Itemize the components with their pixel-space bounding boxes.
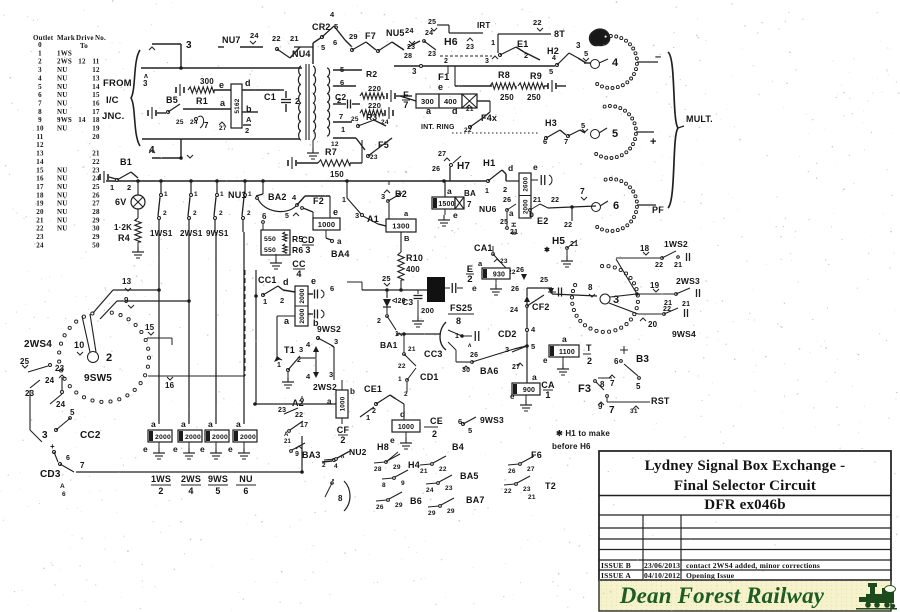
- svg-text:29: 29: [428, 510, 436, 517]
- svg-text:NU: NU: [57, 99, 68, 107]
- capacitor: [308, 313, 313, 315]
- svg-text:21: 21: [36, 216, 44, 224]
- svg-text:6: 6: [543, 137, 547, 146]
- svg-text:a: a: [337, 237, 342, 246]
- svg-text:BA: BA: [464, 189, 476, 198]
- svg-text:2000: 2000: [185, 434, 201, 441]
- svg-text:23: 23: [445, 485, 453, 492]
- svg-text:2: 2: [340, 435, 345, 445]
- svg-text:4: 4: [552, 55, 556, 62]
- svg-text:930: 930: [493, 271, 505, 278]
- contact NU4: [276, 48, 279, 51]
- svg-text:NU1: NU1: [228, 190, 247, 200]
- svg-text:19: 19: [36, 200, 44, 208]
- wire: [492, 246, 494, 252]
- svg-text:29: 29: [447, 508, 455, 515]
- wire: [255, 403, 338, 405]
- svg-text:27: 27: [512, 364, 520, 371]
- svg-text:NU: NU: [57, 74, 68, 82]
- svg-text:NU: NU: [57, 225, 68, 233]
- svg-text:25: 25: [176, 119, 184, 126]
- svg-text:24: 24: [36, 241, 44, 249]
- svg-text:a: a: [532, 372, 537, 382]
- svg-text:e: e: [333, 207, 338, 217]
- svg-text:2WS4: 2WS4: [24, 339, 52, 350]
- svg-text:2: 2: [127, 183, 131, 192]
- svg-text:1: 1: [38, 49, 42, 57]
- svg-text:1·2K: 1·2K: [114, 223, 132, 232]
- svg-text:RST: RST: [651, 396, 670, 406]
- svg-text:3: 3: [186, 40, 192, 51]
- svg-text:F7: F7: [365, 31, 376, 41]
- svg-text:A: A: [246, 115, 252, 124]
- svg-text:9: 9: [38, 116, 42, 124]
- svg-text:a: a: [220, 98, 226, 108]
- svg-text:e: e: [200, 444, 205, 454]
- contact 1WS1: [160, 181, 162, 193]
- svg-text:e: e: [173, 444, 178, 454]
- svg-text:22: 22: [551, 197, 559, 204]
- svg-text:3: 3: [355, 211, 359, 220]
- svg-text:2: 2: [219, 210, 223, 217]
- svg-text:1000: 1000: [340, 396, 347, 411]
- svg-text:26: 26: [432, 166, 440, 173]
- svg-text:CF2: CF2: [532, 302, 550, 312]
- svg-text:4: 4: [306, 372, 311, 381]
- svg-text:22: 22: [564, 222, 572, 229]
- decorative: [97, 320, 99, 322]
- svg-text:–: –: [655, 51, 661, 63]
- svg-text:2000: 2000: [299, 288, 306, 303]
- svg-text:28: 28: [404, 53, 412, 60]
- wire 18: [616, 259, 637, 294]
- contact 2WS1: [190, 181, 192, 193]
- svg-text:H5: H5: [552, 236, 565, 247]
- svg-text:23: 23: [428, 51, 436, 58]
- coil box 1300: [388, 203, 390, 219]
- svg-text:5: 5: [70, 408, 75, 417]
- svg-text:1WS: 1WS: [57, 49, 72, 57]
- wire: [400, 96, 416, 101]
- svg-text:ISSUE B: ISSUE B: [601, 561, 631, 570]
- svg-text:250: 250: [500, 93, 514, 102]
- svg-text:22: 22: [533, 18, 542, 27]
- svg-text:a: a: [509, 209, 514, 218]
- svg-text:To: To: [80, 42, 88, 50]
- svg-text:NU5: NU5: [386, 28, 405, 38]
- svg-text:7: 7: [580, 186, 585, 196]
- svg-text:26: 26: [508, 468, 516, 475]
- svg-text:26: 26: [511, 286, 519, 293]
- svg-text:12: 12: [92, 66, 100, 74]
- svg-text:2: 2: [432, 429, 437, 439]
- svg-text:CD2: CD2: [498, 329, 517, 339]
- relay coil 2600/2000: [519, 173, 531, 218]
- svg-text:1: 1: [110, 183, 114, 192]
- svg-text:21: 21: [408, 346, 416, 353]
- svg-text:20: 20: [648, 320, 658, 329]
- contact NU1: [244, 181, 246, 193]
- svg-text:1: 1: [263, 297, 267, 306]
- svg-text:2000: 2000: [155, 434, 171, 441]
- svg-text:b: b: [529, 210, 534, 219]
- svg-text:14: 14: [78, 116, 86, 124]
- svg-text:16: 16: [36, 175, 44, 183]
- contact BA1: [386, 307, 388, 314]
- svg-text:F2: F2: [313, 196, 324, 206]
- svg-text:R9: R9: [530, 71, 542, 81]
- svg-text:1500: 1500: [438, 201, 454, 208]
- svg-text:1: 1: [485, 188, 489, 195]
- svg-text:CA: CA: [541, 380, 555, 390]
- svg-text:15: 15: [36, 166, 44, 174]
- svg-text:1: 1: [164, 191, 168, 198]
- svg-text:5: 5: [584, 49, 588, 58]
- diode: [386, 290, 388, 298]
- svg-text:+: +: [650, 136, 657, 148]
- svg-text:1000: 1000: [398, 424, 414, 431]
- svg-text:29: 29: [393, 464, 401, 471]
- svg-text:3: 3: [38, 66, 42, 74]
- wire: [526, 288, 528, 384]
- svg-text:7: 7: [467, 200, 472, 209]
- svg-text:23: 23: [500, 258, 508, 265]
- battery: [175, 87, 177, 93]
- svg-text:17: 17: [92, 108, 100, 116]
- svg-text:F: F: [403, 90, 409, 100]
- svg-text:2000: 2000: [299, 308, 306, 323]
- svg-text:21: 21: [510, 229, 518, 236]
- svg-text:3: 3: [485, 58, 489, 65]
- svg-text:21: 21: [284, 439, 292, 445]
- wire: [242, 89, 280, 91]
- transformer secondary 2: [327, 68, 330, 136]
- svg-text:e: e: [453, 210, 458, 220]
- svg-text:13: 13: [92, 74, 100, 82]
- svg-text:24: 24: [45, 376, 55, 385]
- svg-text:8: 8: [338, 494, 343, 503]
- svg-text:2000: 2000: [240, 434, 256, 441]
- svg-text:23: 23: [36, 233, 44, 241]
- svg-text:28: 28: [92, 208, 100, 216]
- svg-text:4: 4: [188, 486, 193, 496]
- svg-text:4: 4: [292, 193, 297, 202]
- svg-text:12: 12: [78, 58, 86, 66]
- svg-text:16: 16: [165, 381, 175, 390]
- svg-text:H8: H8: [377, 442, 389, 452]
- svg-text:Mark: Mark: [57, 34, 75, 42]
- svg-text:25: 25: [20, 357, 30, 366]
- svg-text:CC: CC: [292, 259, 306, 269]
- svg-text:1300: 1300: [392, 221, 410, 230]
- svg-text:F3: F3: [578, 383, 591, 395]
- coil box 400: [439, 94, 462, 108]
- svg-text:24: 24: [510, 307, 518, 314]
- svg-text:3: 3: [42, 430, 48, 441]
- ink blob: [590, 29, 610, 45]
- svg-text:1: 1: [342, 197, 346, 204]
- node 4 stub: [180, 139, 182, 158]
- spark gap: [462, 94, 477, 108]
- svg-text:Lydney Signal Box Exchange -: Lydney Signal Box Exchange -: [645, 458, 846, 474]
- svg-text:21: 21: [674, 262, 682, 269]
- svg-text:2: 2: [38, 58, 42, 66]
- svg-text:6V: 6V: [115, 197, 126, 207]
- svg-text:14: 14: [36, 158, 44, 166]
- svg-text:Dean Forest Railway: Dean Forest Railway: [619, 583, 825, 608]
- svg-text:21: 21: [533, 197, 541, 204]
- buzzer blob: [427, 277, 445, 302]
- wire to bank 3: [527, 287, 552, 289]
- svg-text:BA1: BA1: [380, 340, 398, 350]
- svg-text:CC1: CC1: [258, 275, 277, 285]
- svg-text:6: 6: [62, 491, 66, 498]
- svg-text:E2: E2: [537, 216, 548, 226]
- svg-text:5: 5: [285, 213, 289, 220]
- svg-text:E1: E1: [517, 39, 528, 49]
- transformer core: [305, 64, 307, 140]
- svg-text:NU: NU: [57, 216, 68, 224]
- svg-text:B6: B6: [410, 496, 422, 506]
- wire main bus: [106, 180, 486, 182]
- svg-text:1WS1: 1WS1: [150, 229, 173, 238]
- svg-text:e: e: [472, 283, 477, 293]
- svg-text:9: 9: [401, 480, 405, 487]
- svg-text:0: 0: [38, 41, 42, 49]
- svg-text:8: 8: [38, 108, 42, 116]
- svg-text:23: 23: [523, 486, 531, 493]
- svg-text:BA7: BA7: [466, 495, 485, 505]
- svg-text:T1: T1: [284, 345, 295, 355]
- svg-text:Final Selector Circuit: Final Selector Circuit: [674, 478, 816, 494]
- svg-text:T: T: [586, 343, 592, 353]
- svg-text:2: 2: [106, 352, 112, 364]
- svg-text:CC2: CC2: [80, 430, 101, 441]
- wire: [300, 357, 316, 359]
- coil box 300: [416, 94, 439, 108]
- wire: [362, 289, 428, 291]
- svg-text:24: 24: [92, 175, 100, 183]
- wire 16: [148, 375, 245, 377]
- svg-text:22: 22: [272, 34, 281, 43]
- svg-text:22: 22: [398, 363, 406, 370]
- svg-text:a: a: [447, 186, 452, 196]
- svg-text:23: 23: [278, 407, 286, 414]
- svg-text:6: 6: [330, 284, 334, 293]
- svg-text:2: 2: [372, 408, 376, 415]
- svg-text:NU: NU: [57, 91, 68, 99]
- svg-text:H6: H6: [444, 36, 458, 48]
- svg-text:29: 29: [395, 502, 403, 509]
- svg-text:7: 7: [339, 112, 343, 121]
- svg-text:NU4: NU4: [292, 49, 311, 59]
- brace left: [131, 50, 140, 146]
- relay coil CC 2000/2000: [295, 286, 308, 326]
- wire: [255, 270, 257, 404]
- svg-text:2WS: 2WS: [57, 58, 72, 66]
- svg-text:a: a: [284, 316, 290, 326]
- contact BA6: [455, 350, 457, 362]
- svg-text:2: 2: [247, 210, 251, 217]
- svg-text:04/10/2012: 04/10/2012: [644, 571, 680, 580]
- svg-text:BA4: BA4: [331, 249, 350, 259]
- svg-text:9WS2: 9WS2: [317, 324, 341, 334]
- svg-text:1: 1: [194, 191, 198, 198]
- svg-text:1WS: 1WS: [151, 474, 171, 484]
- svg-text:3: 3: [143, 79, 148, 88]
- svg-text:a: a: [181, 419, 186, 429]
- svg-text:24: 24: [56, 400, 66, 409]
- svg-text:H1: H1: [483, 158, 496, 169]
- svg-text:5: 5: [531, 342, 535, 351]
- svg-text:300: 300: [200, 77, 214, 86]
- svg-text:a: a: [562, 334, 567, 344]
- svg-text:5: 5: [468, 426, 472, 435]
- wire: [333, 137, 356, 139]
- svg-text:BA3: BA3: [302, 450, 321, 460]
- ground: [275, 254, 277, 258]
- svg-text:2000: 2000: [212, 434, 228, 441]
- svg-text:5: 5: [636, 382, 641, 391]
- svg-text:220: 220: [368, 101, 381, 110]
- svg-text:8: 8: [382, 482, 386, 489]
- svg-text:4: 4: [334, 463, 338, 470]
- svg-text:29: 29: [92, 233, 100, 241]
- svg-text:30: 30: [462, 367, 470, 374]
- transformer primary: [298, 66, 301, 140]
- svg-text:NU: NU: [239, 474, 252, 484]
- svg-text:27: 27: [92, 200, 100, 208]
- svg-text:7: 7: [403, 100, 408, 110]
- wiper: [610, 294, 637, 297]
- svg-text:1: 1: [341, 125, 345, 134]
- ground: [312, 140, 314, 148]
- svg-text:5: 5: [321, 43, 325, 52]
- svg-text:4: 4: [531, 325, 536, 334]
- svg-text:4: 4: [612, 57, 619, 69]
- wire: [277, 315, 295, 317]
- svg-text:NU: NU: [57, 191, 68, 199]
- svg-text:FROM: FROM: [103, 78, 132, 89]
- svg-text:1: 1: [491, 38, 495, 47]
- svg-text:6: 6: [613, 200, 619, 212]
- svg-text:BA5: BA5: [460, 471, 479, 481]
- svg-text:28: 28: [374, 466, 382, 473]
- svg-text:e: e: [533, 162, 538, 172]
- svg-text:400: 400: [406, 265, 420, 274]
- svg-text:ʌ: ʌ: [468, 343, 472, 349]
- svg-text:Outlet: Outlet: [33, 34, 54, 42]
- coil box 930: [482, 268, 510, 279]
- svg-text:R6: R6: [292, 245, 303, 255]
- svg-text:2WS1: 2WS1: [180, 229, 203, 238]
- svg-text:7: 7: [564, 137, 568, 146]
- svg-text:2: 2: [377, 318, 381, 325]
- svg-text:6: 6: [243, 486, 248, 496]
- svg-text:CE: CE: [430, 416, 443, 426]
- resistor R5 R6 box: [261, 230, 290, 255]
- svg-text:4: 4: [38, 74, 42, 82]
- train logo: [856, 583, 897, 610]
- selector bank 4: [604, 35, 607, 38]
- svg-text:5: 5: [581, 121, 585, 130]
- svg-text:22: 22: [504, 488, 512, 495]
- svg-text:1: 1: [277, 362, 281, 369]
- svg-text:4: 4: [330, 10, 335, 19]
- wire bottom rail: [76, 471, 302, 473]
- svg-text:2: 2: [503, 185, 507, 194]
- svg-text:e: e: [543, 356, 548, 365]
- svg-text:9SW5: 9SW5: [84, 373, 112, 384]
- svg-text:20: 20: [36, 208, 44, 216]
- svg-text:9WS4: 9WS4: [672, 329, 696, 339]
- relay coil 5162: [231, 84, 242, 128]
- svg-text:22: 22: [663, 306, 671, 313]
- svg-text:21: 21: [528, 494, 536, 501]
- svg-text:e: e: [143, 444, 148, 454]
- svg-text:b: b: [350, 387, 355, 396]
- svg-text:I/C: I/C: [106, 95, 119, 106]
- transistor: [440, 322, 446, 350]
- svg-text:2WS2: 2WS2: [313, 382, 337, 392]
- svg-text:NU: NU: [57, 166, 68, 174]
- svg-text:11: 11: [36, 133, 43, 141]
- svg-text:a: a: [327, 397, 332, 406]
- svg-text:27: 27: [438, 151, 446, 158]
- svg-text:d: d: [400, 409, 405, 419]
- svg-text:R8: R8: [498, 70, 510, 80]
- wire: [333, 121, 352, 123]
- svg-text:11: 11: [92, 58, 99, 66]
- svg-text:1: 1: [398, 376, 402, 383]
- svg-text:9WS: 9WS: [57, 116, 72, 124]
- svg-text:d: d: [283, 277, 289, 287]
- svg-text:24: 24: [250, 31, 259, 40]
- svg-text:3: 3: [299, 345, 303, 354]
- svg-text:d: d: [245, 78, 251, 88]
- wire: [333, 374, 335, 380]
- svg-text:5162: 5162: [234, 98, 241, 113]
- svg-text:6: 6: [38, 91, 42, 99]
- svg-text:22: 22: [439, 466, 447, 473]
- wire: [448, 25, 450, 33]
- wire 9: [100, 301, 117, 319]
- svg-text:e: e: [510, 392, 515, 401]
- svg-text:+: +: [50, 442, 55, 451]
- svg-text:C1: C1: [264, 92, 276, 102]
- svg-text:A: A: [60, 483, 65, 490]
- svg-text:21: 21: [92, 150, 100, 158]
- svg-text:8: 8: [588, 283, 593, 292]
- svg-text:19: 19: [650, 281, 660, 290]
- wire: [346, 181, 348, 198]
- svg-text:e: e: [228, 444, 233, 454]
- resistor R1: [188, 87, 214, 93]
- svg-text:21: 21: [290, 34, 299, 43]
- svg-text:300: 300: [421, 97, 434, 106]
- svg-text:JNC.: JNC.: [102, 111, 124, 122]
- svg-text:C3: C3: [402, 297, 413, 307]
- svg-text:NU2: NU2: [349, 447, 367, 457]
- svg-text:1WS2: 1WS2: [664, 239, 688, 249]
- wire: [394, 65, 555, 67]
- contact 7: [198, 116, 204, 128]
- svg-text:1: 1: [248, 191, 252, 198]
- svg-text:1: 1: [366, 413, 370, 422]
- svg-text:MULT.: MULT.: [686, 114, 713, 124]
- svg-text:3: 3: [329, 370, 333, 379]
- svg-text:3: 3: [334, 337, 338, 346]
